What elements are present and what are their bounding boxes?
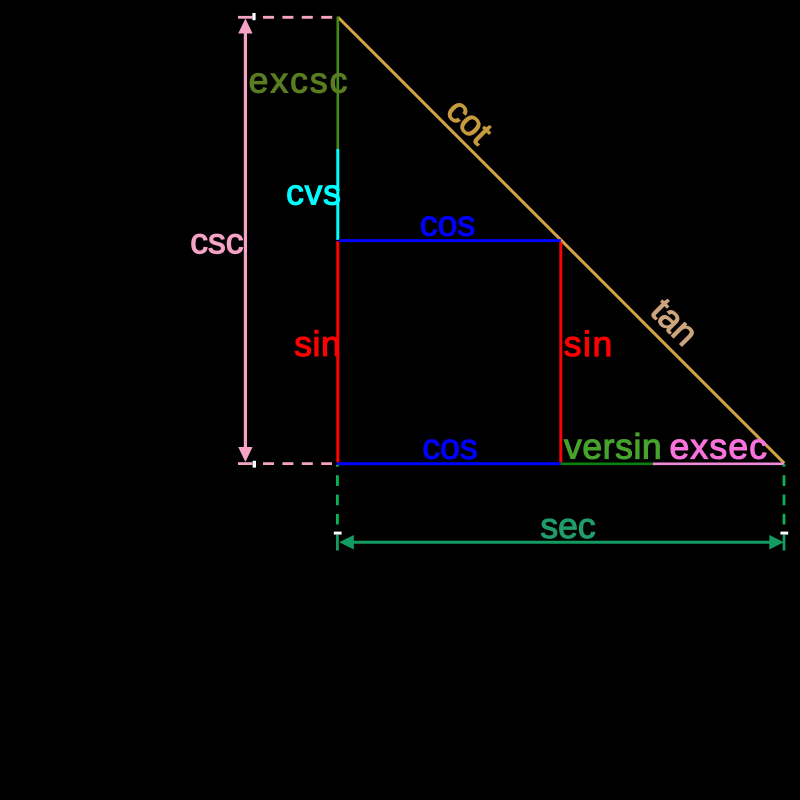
sec measure arrow shaft (green horizontal) — [350, 541, 772, 544]
sec measure arrowhead left — [339, 535, 354, 550]
wire hypotenuse cot+tan line — [338, 17, 785, 463]
svg-text:cos: cos — [420, 204, 475, 244]
csc measure arrow shaft (pink vertical) — [244, 30, 247, 450]
cvs segment (cyan vertical) — [336, 149, 339, 240]
svg-text:csc: csc — [190, 221, 243, 261]
csc measure: bottom dashed pink connector — [263, 462, 332, 465]
exsec segment (magenta horizontal) — [653, 462, 784, 465]
sec measure: left dashed green vertical — [336, 465, 339, 525]
svg-text:sin: sin — [564, 324, 614, 364]
csc measure: top dashed pink connector — [263, 16, 338, 19]
csc measure arrowhead down — [238, 447, 252, 462]
sec measure: right green end bar — [783, 535, 786, 551]
sin segment left (red vertical) — [336, 241, 339, 462]
excsc segment (dark green vertical) — [336, 17, 339, 150]
svg-text:cos: cos — [422, 427, 477, 467]
csc measure: bottom white tick — [253, 461, 256, 468]
svg-text:versin: versin — [564, 427, 662, 467]
cos segment bottom (blue horizontal) — [337, 462, 561, 465]
sec measure: right white tick — [780, 532, 788, 535]
sec measure: left green end bar — [336, 535, 339, 551]
svg-text:sec: sec — [540, 506, 595, 546]
versin segment (dark green horizontal) — [561, 462, 654, 465]
svg-text:excsc: excsc — [249, 60, 350, 100]
csc measure: bottom connector solid pink bar — [238, 462, 252, 465]
csc measure: top connector solid pink bar — [238, 16, 252, 19]
cos segment top (blue horizontal) — [339, 239, 561, 242]
svg-text:sin: sin — [294, 324, 341, 364]
sin segment right (red vertical) — [559, 242, 562, 462]
sec measure: left white tick — [334, 532, 342, 535]
sec measure arrowhead right — [769, 535, 784, 550]
svg-text:exsec: exsec — [669, 427, 768, 467]
csc measure: top white tick — [252, 13, 255, 20]
csc measure arrowhead up — [238, 19, 252, 34]
sec measure: right dashed green vertical — [783, 464, 786, 525]
svg-text:cvs: cvs — [286, 172, 342, 212]
